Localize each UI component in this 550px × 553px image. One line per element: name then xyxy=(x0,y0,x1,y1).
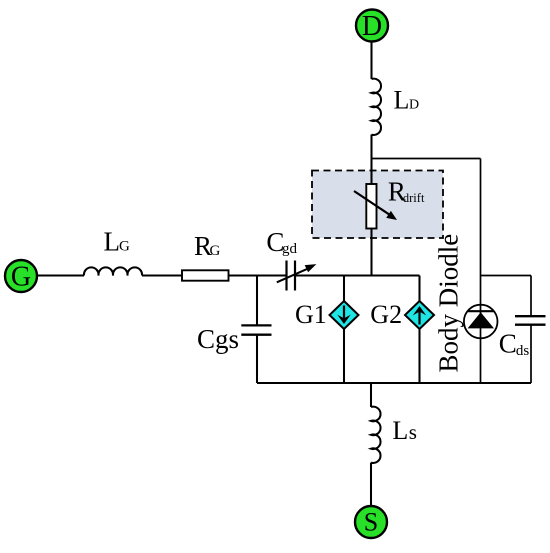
svg-text:G: G xyxy=(119,239,130,255)
svg-text:Cgs: Cgs xyxy=(197,324,239,354)
svg-text:G: G xyxy=(11,261,31,292)
svg-text:L: L xyxy=(392,416,408,445)
svg-text:drift: drift xyxy=(403,191,425,205)
svg-text:Body Diodle: Body Diodle xyxy=(434,234,464,373)
svg-text:S: S xyxy=(364,508,378,537)
svg-text:G2: G2 xyxy=(370,300,402,329)
svg-text:C: C xyxy=(499,329,517,359)
svg-text:D: D xyxy=(409,98,419,113)
svg-text:s: s xyxy=(409,420,417,444)
svg-text:D: D xyxy=(362,11,382,42)
svg-text:gd: gd xyxy=(282,241,298,257)
svg-text:G: G xyxy=(210,243,221,259)
svg-text:L: L xyxy=(394,86,410,115)
svg-text:ds: ds xyxy=(516,343,530,359)
svg-text:G1: G1 xyxy=(295,300,327,329)
svg-text:L: L xyxy=(104,227,121,257)
